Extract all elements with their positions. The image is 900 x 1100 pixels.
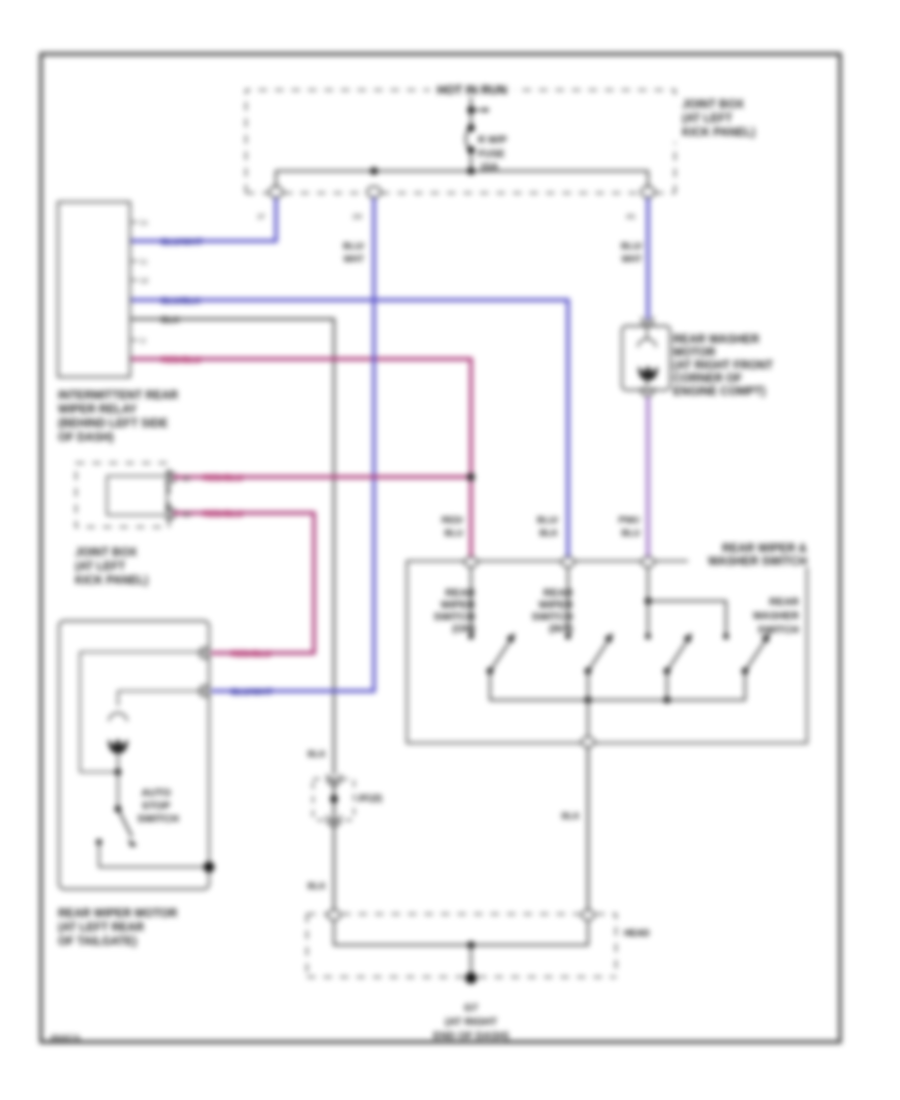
node dot A1 <box>467 106 475 114</box>
svg-text:RED/BLU: RED/BLU <box>161 355 201 365</box>
svg-text:(AT LEFT REAR: (AT LEFT REAR <box>58 922 145 934</box>
label auto stop switch <box>137 787 178 825</box>
wiper motor M1 outer box <box>59 621 209 889</box>
node dot bus2 <box>467 167 475 175</box>
label BLU/WHT drop mid <box>343 241 364 264</box>
svg-text:SWITCH: SWITCH <box>758 624 799 636</box>
fuse F1 <box>466 128 471 150</box>
svg-text:G7: G7 <box>464 1002 478 1014</box>
svg-text:BLK: BLK <box>161 315 180 325</box>
pin stub 3 <box>130 279 138 281</box>
wiper brush contact <box>109 713 127 721</box>
svg-text:SWITCH: SWITCH <box>532 611 573 623</box>
svg-text:REAR: REAR <box>769 596 799 608</box>
label rear washer switch <box>753 596 800 636</box>
wire stub pin1 <box>470 567 472 636</box>
joint box J2 (dashed, left) <box>76 463 169 527</box>
wire PNK/BLU washer to switch <box>646 397 650 558</box>
contact T2 <box>566 634 571 639</box>
label BLU/WHT washer <box>621 241 642 264</box>
svg-text:SWITCH: SWITCH <box>434 611 475 623</box>
node dot A3 <box>467 146 475 154</box>
wire RED/BLU joint to junction <box>173 475 471 479</box>
pin stub 4 <box>130 339 138 341</box>
svg-text:REAR WIPER &: REAR WIPER & <box>722 543 807 555</box>
svg-text:J/C(2): J/C(2) <box>357 793 382 803</box>
switch blade 4 <box>745 641 765 671</box>
contact T3 <box>646 634 651 639</box>
wire BLK to ground box left <box>333 820 335 911</box>
svg-text:1c: 1c <box>140 259 148 266</box>
wire RED/BLU joint to motor <box>173 513 314 653</box>
svg-text:END OF DASH): END OF DASH) <box>433 1030 509 1042</box>
wire blade bus <box>490 671 745 700</box>
svg-text:(BEHIND LEFT SIDE: (BEHIND LEFT SIDE <box>58 418 168 430</box>
svg-text:4N: 4N <box>626 214 635 221</box>
svg-text:WIPER: WIPER <box>441 599 476 611</box>
contact T1 <box>469 634 474 639</box>
pin stub 1 <box>130 221 138 223</box>
svg-text:BLK: BLK <box>562 811 581 821</box>
wire ground drop <box>470 945 472 975</box>
auto stop fixed contact <box>96 839 102 845</box>
svg-text:(AT LEFT: (AT LEFT <box>75 561 125 573</box>
svg-text:1r: 1r <box>140 338 147 345</box>
label G7 <box>433 1002 509 1042</box>
label relay <box>58 390 179 444</box>
node dot pink junction <box>467 473 475 481</box>
svg-text:JOINT BOX: JOINT BOX <box>682 99 744 111</box>
wire RED/BLU relay to switch <box>131 359 471 558</box>
connector switch pin3 <box>642 557 655 567</box>
node dot ground bus <box>467 941 475 949</box>
svg-text:WHT: WHT <box>622 254 643 264</box>
wire motor internal loop <box>80 652 205 772</box>
svg-text:2M: 2M <box>352 214 362 221</box>
svg-text:RED/BLU: RED/BLU <box>231 649 271 659</box>
connector motor pin1 <box>200 647 211 659</box>
connector ground left <box>328 910 341 920</box>
ground box G dashed <box>307 914 616 977</box>
svg-text:(AT RIGHT: (AT RIGHT <box>445 1016 498 1028</box>
connector 2F <box>269 187 283 198</box>
washer brush contact <box>638 323 656 347</box>
node dot bus1 <box>370 167 378 175</box>
svg-text:HOT IN RUN: HOT IN RUN <box>437 83 507 97</box>
svg-text:BLU/BLK: BLU/BLK <box>161 296 201 306</box>
node HOT IN RUN <box>430 82 514 97</box>
svg-text:BLU/WHT: BLU/WHT <box>161 237 203 247</box>
connector JC top <box>327 774 341 785</box>
wire BLU/WHT relay to joint box <box>131 198 276 241</box>
svg-text:BLU: BLU <box>445 528 464 538</box>
wire bus <box>276 171 648 186</box>
svg-text:2E: 2E <box>182 476 191 483</box>
label rear wiper motor <box>58 908 178 948</box>
label BLU/BLK above switch <box>537 515 558 538</box>
svg-text:AUTO: AUTO <box>141 787 171 799</box>
svg-text:2D: 2D <box>182 512 191 519</box>
svg-text:WIPER: WIPER <box>539 599 574 611</box>
svg-text:BLU: BLU <box>622 528 641 538</box>
connector washer bottom <box>641 387 654 396</box>
connector 4N <box>641 187 655 198</box>
connector JC bottom <box>327 815 341 826</box>
svg-text:SWITCH: SWITCH <box>137 813 178 825</box>
wire stub pin2 <box>567 567 569 636</box>
svg-text:BLU/: BLU/ <box>621 241 642 251</box>
svg-text:OF TAILGATE): OF TAILGATE) <box>58 936 137 948</box>
wire ground bus <box>334 920 588 945</box>
connector switch pin2 <box>562 557 575 567</box>
svg-text:JOINT BOX: JOINT BOX <box>75 547 137 559</box>
svg-text:OF DASH): OF DASH) <box>58 432 114 444</box>
svg-text:WASHER SWITCH: WASHER SWITCH <box>708 556 807 568</box>
svg-text:(INT): (INT) <box>549 623 573 635</box>
joint connector JC dashed box <box>313 779 354 820</box>
svg-text:1d: 1d <box>140 278 148 285</box>
node dot motor a <box>115 769 122 776</box>
connector ground right <box>582 910 595 920</box>
svg-text:BLU/WHT: BLU/WHT <box>231 687 273 697</box>
auto stop switch blade <box>118 809 132 837</box>
svg-text:MOTOR: MOTOR <box>673 347 716 359</box>
label fuse value <box>478 135 507 173</box>
svg-text:HEAD: HEAD <box>624 928 650 938</box>
label RED/BLU above switch <box>441 515 463 538</box>
wire through JC <box>333 779 335 820</box>
connector switch bottom <box>582 737 595 747</box>
svg-text:KICK PANEL): KICK PANEL) <box>75 575 148 587</box>
joint box J2 inner <box>107 476 167 515</box>
svg-text:BLK: BLK <box>308 881 327 891</box>
joint box (dashed, top) <box>246 90 675 193</box>
svg-text:INTERMITTENT REAR: INTERMITTENT REAR <box>58 390 179 402</box>
svg-text:CORNER OF: CORNER OF <box>673 373 742 385</box>
connector 2M <box>367 187 381 198</box>
label washer motor <box>673 334 773 398</box>
switch blade 3 <box>667 641 687 671</box>
node dot case ground <box>204 862 215 873</box>
wire motor internal blue feed <box>118 691 205 706</box>
svg-text:REAR: REAR <box>445 587 475 599</box>
svg-text:WIPER RELAY: WIPER RELAY <box>58 404 137 416</box>
svg-text:ENGINE COMPT): ENGINE COMPT) <box>673 386 766 398</box>
pin stub 2 <box>130 260 138 262</box>
svg-text:RED/BLU: RED/BLU <box>203 473 243 483</box>
svg-text:REAR: REAR <box>543 587 573 599</box>
node dot A2 <box>467 124 475 132</box>
connector J2 pin1 <box>165 472 176 483</box>
label rear wiper switch on <box>434 587 476 635</box>
svg-text:BLK: BLK <box>308 749 327 759</box>
node dot bus a <box>585 697 592 704</box>
svg-text:(AT RIGHT FRONT: (AT RIGHT FRONT <box>673 360 773 372</box>
svg-text:RED/: RED/ <box>441 515 463 525</box>
wire BLK relay down <box>131 319 334 775</box>
node dot bus b <box>664 697 671 704</box>
label switch header <box>688 541 810 568</box>
contact T4 <box>724 634 729 639</box>
svg-text:WASHER: WASHER <box>753 610 800 622</box>
node dot washer branch <box>645 598 652 605</box>
svg-text:BLK: BLK <box>540 528 559 538</box>
relay K1 intermittent rear wiper relay <box>58 202 130 377</box>
svg-text:RED/BLU: RED/BLU <box>203 509 243 519</box>
svg-text:WHT: WHT <box>344 254 365 264</box>
connector motor pin2 <box>200 685 211 697</box>
node dot JC <box>330 795 338 803</box>
svg-text:KICK PANEL): KICK PANEL) <box>682 127 755 139</box>
fusible link tap <box>471 109 484 111</box>
svg-text:R W/P: R W/P <box>478 135 507 146</box>
svg-text:BLU/: BLU/ <box>343 241 364 251</box>
washer motor armature <box>639 367 657 380</box>
connector J2 pin2 <box>165 508 176 519</box>
svg-text:JB0I57A: JB0I57A <box>49 1034 81 1043</box>
wire fuse drop <box>470 97 472 171</box>
label joint box 2 <box>75 547 148 587</box>
wire to auto stop pivot <box>117 772 119 809</box>
label JOINT BOX (top right) <box>671 97 771 142</box>
connector washer top <box>641 317 654 326</box>
svg-text:PNK/: PNK/ <box>618 515 640 525</box>
wire BLK switch to ground box <box>587 747 589 911</box>
wire auto stop to case <box>99 842 209 867</box>
wire switch output <box>587 700 589 738</box>
svg-text:1F: 1F <box>257 214 265 221</box>
node dot pivot <box>115 806 122 813</box>
svg-text:REAR WIPER MOTOR: REAR WIPER MOTOR <box>58 908 178 920</box>
svg-text:REAR WASHER: REAR WASHER <box>673 334 760 346</box>
wire BLU/WHT to washer motor <box>646 198 650 319</box>
switch blade 1 <box>490 641 510 671</box>
wiper motor armature <box>109 740 127 753</box>
svg-text:STOP: STOP <box>142 800 170 812</box>
label rear wiper switch int <box>532 587 574 635</box>
wire BLU/BLK relay to switch <box>131 300 568 558</box>
svg-text:BLU/: BLU/ <box>537 515 558 525</box>
svg-text:(ON): (ON) <box>452 623 475 635</box>
wire BLU/WHT long drop <box>211 198 374 691</box>
svg-text:(AT LEFT: (AT LEFT <box>682 113 732 125</box>
svg-text:FUSE: FUSE <box>478 149 505 160</box>
switch blade 2 <box>588 641 608 671</box>
washer motor M2 box <box>622 326 670 390</box>
connector switch pin1 <box>465 557 478 567</box>
label PNK/BLU <box>618 515 640 538</box>
svg-text:1n: 1n <box>140 220 148 227</box>
wire stub pin3 with washer branch <box>648 567 726 636</box>
switch S1 rear wiper and washer switch box <box>407 561 807 743</box>
ground G7 <box>465 972 477 984</box>
